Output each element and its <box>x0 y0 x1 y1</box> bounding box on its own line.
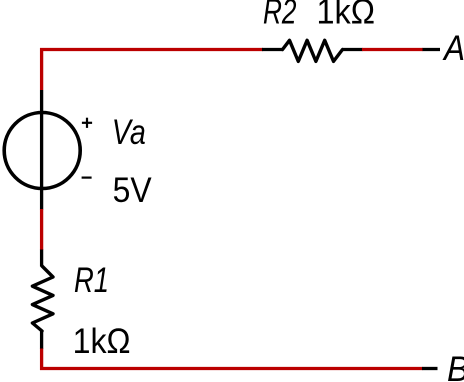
resistor R1 <box>32 266 53 331</box>
wire: black lead out of R1 bottom <box>40 331 43 350</box>
wire: black vertical through source Va <box>40 90 43 210</box>
node B label <box>447 350 464 382</box>
node A label <box>442 29 464 68</box>
wire: red segment to node A <box>362 48 423 51</box>
wire: black lead into R1 top <box>40 250 43 267</box>
svg-text:1kΩ: 1kΩ <box>73 322 131 361</box>
minus sign of source <box>82 177 92 179</box>
svg-text:B: B <box>447 350 464 382</box>
svg-text:5V: 5V <box>113 171 153 210</box>
label R2 value 1kOhm <box>317 0 376 31</box>
label R1 <box>74 261 109 300</box>
label 5V <box>113 171 153 210</box>
label R1 value 1kOhm <box>73 322 131 361</box>
label R2 <box>263 0 297 31</box>
voltage source Va circle <box>4 113 80 189</box>
svg-text:1kΩ: 1kΩ <box>317 0 376 31</box>
wire: black terminal stub at node A <box>423 48 441 51</box>
svg-text:R1: R1 <box>74 261 109 300</box>
svg-text:R2: R2 <box>263 0 297 31</box>
wire: bottom-left corner red (vertical + bottom horizontal run) <box>42 349 423 369</box>
wire: black lead out of R2 right <box>342 48 363 51</box>
wire: black terminal stub at node B <box>422 367 438 370</box>
resistor R2 <box>283 40 343 61</box>
wire: top-left corner red (vertical drop + top horizontal run) <box>42 50 263 91</box>
svg-text:Va: Va <box>112 113 146 152</box>
wire: red segment below source <box>40 209 43 250</box>
wire: black lead into R2 left <box>262 48 283 51</box>
svg-text:A: A <box>442 29 464 68</box>
plus sign of source <box>82 118 92 128</box>
label Va <box>112 113 146 152</box>
